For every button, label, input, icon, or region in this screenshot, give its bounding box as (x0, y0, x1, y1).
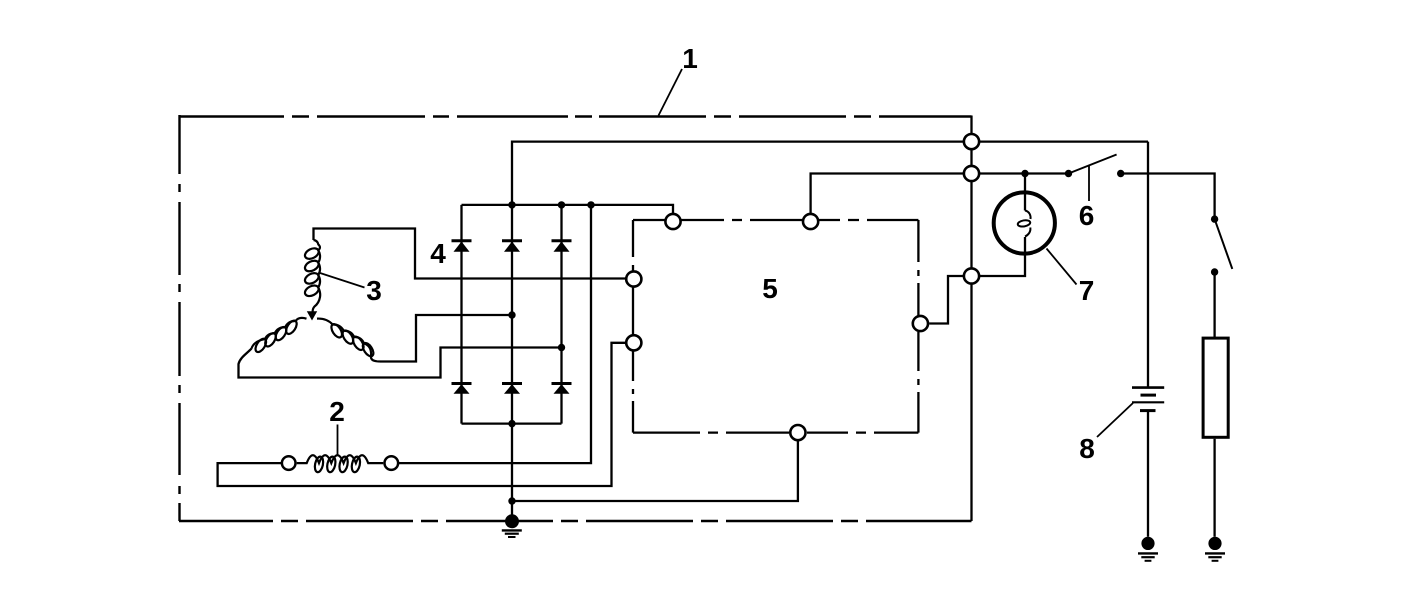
label 1 leader (659, 69, 683, 116)
regulator terminal circle bottom (790, 425, 805, 440)
field winding 2: coil humps (297, 455, 384, 463)
wire: D+ line from regulator to switch 6 (left part) (811, 174, 1069, 222)
diode D5 (502, 384, 522, 394)
ground symbol resistor (1205, 537, 1225, 561)
diode D1 (452, 241, 472, 252)
wire: D+ line right of switch 6 down to ignition switch (1121, 174, 1215, 220)
junction on top bus at column 2 (508, 201, 515, 208)
lamp filament loop (1017, 219, 1030, 227)
diode D2 (502, 241, 522, 252)
junction phase C (558, 344, 565, 351)
ignition switch bottom contact dot (1211, 268, 1218, 275)
alternator case box 1 bottom border (dash-dot) (179, 520, 972, 522)
alternator case box 1 top border (dash-dot) (179, 115, 972, 117)
lamp filament bulge (1025, 211, 1031, 220)
stator winding 3: right coil spine (317, 319, 380, 362)
junction on bottom bus at column 2 (508, 420, 515, 427)
svg-text:1: 1 (682, 43, 698, 74)
lamp filament lower bulge (1025, 228, 1030, 237)
switch 6 left contact dot (1065, 170, 1072, 177)
wire: B+ output line from rectifier riser to battery drop (top line) (512, 142, 1148, 205)
alternator case box 1 left border (dash-dot) (178, 115, 180, 521)
regulator terminal circle top-middle (803, 214, 818, 229)
wire: regulator right terminal to case terminal T3 / lamp return (929, 237, 1025, 324)
label 8 leader (1097, 403, 1133, 437)
wire: field supply line from top bus down to field coil (391, 205, 591, 463)
field coil loops (314, 456, 362, 473)
battery 8 plate short bottom (1140, 409, 1156, 412)
rectifier column 2 (continues to ground) (511, 205, 513, 521)
wire: ignition switch to load resistor (1213, 272, 1215, 338)
junction on top bus at column 3 (558, 201, 565, 208)
stator top coil loops (303, 246, 320, 298)
svg-text:6: 6 (1079, 200, 1095, 231)
wire: battery feed drop (1147, 142, 1149, 387)
label 6 leader (1088, 166, 1090, 202)
battery 8 plate long lower (1132, 401, 1164, 403)
svg-text:7: 7 (1079, 275, 1095, 306)
field terminal circle left (282, 456, 296, 470)
diode D6 (552, 384, 572, 394)
rectifier top bus (462, 205, 674, 222)
stator right coil loops (329, 322, 375, 358)
label 2 leader (337, 425, 339, 456)
regulator terminal circle right (913, 316, 928, 331)
field winding 2: left lead to regulator (218, 343, 634, 486)
stator winding 3: left coil spine (252, 318, 307, 349)
wire: regulator bottom terminal to ground column (512, 433, 798, 501)
load resistor body (1203, 338, 1228, 437)
svg-text:3: 3 (366, 275, 382, 306)
regulator terminal circle top-left (665, 214, 680, 229)
svg-text:5: 5 (762, 273, 778, 304)
regulator terminal circle left-lower (field output) (626, 335, 641, 350)
svg-text:4: 4 (430, 238, 446, 269)
stator star point junction (307, 311, 317, 320)
lamp top lead (1024, 174, 1026, 211)
svg-text:2: 2 (329, 396, 345, 427)
resistor bottom lead (1213, 439, 1215, 537)
wire: stator phase A to regulator (314, 229, 634, 279)
rectifier bottom bus (462, 422, 562, 424)
switch 6 right contact dot (1117, 170, 1124, 177)
case terminal T2 (D+) (964, 166, 979, 181)
ignition switch blade (1215, 219, 1233, 269)
wire: stator phase C to rectifier column 3 (239, 348, 562, 378)
junction phase B (508, 311, 515, 318)
stator left coil loops (253, 319, 298, 354)
ground symbol inside alternator (rectifier negative) (502, 514, 522, 537)
regulator box 5 right border (dash-dot) (917, 220, 919, 433)
battery bottom lead (1147, 412, 1149, 537)
warning lamp 7 bulb circle (994, 192, 1055, 253)
diode D4 (452, 384, 472, 394)
regulator terminal circle left-upper (phase A input) (626, 271, 641, 286)
rectifier column 1 (460, 205, 462, 424)
regulator box 5 bottom border (dash-dot) (633, 431, 918, 433)
junction at ground column y=501 (508, 497, 515, 504)
regulator box 5 left border (dash-dot) (632, 220, 634, 433)
field terminal circle right (385, 456, 399, 470)
switch 6 blade (1069, 155, 1117, 174)
diode D3 (552, 241, 572, 252)
case terminal T3 (lamp return) (964, 268, 979, 283)
battery 8 plate short upper (1141, 394, 1157, 397)
junction on top bus at field line (587, 201, 594, 208)
label 3 leader (319, 273, 365, 288)
ground symbol battery (1138, 537, 1158, 561)
case terminal T1 (B+) (964, 134, 979, 149)
label 7 leader (1047, 249, 1077, 285)
ignition switch top contact dot (1211, 215, 1218, 222)
battery 8 plate long top (1132, 386, 1164, 389)
regulator box 5 top border (dash-dot) (633, 219, 918, 221)
rectifier column 3 (560, 205, 562, 424)
junction: lamp top on D+ line (1021, 170, 1028, 177)
stator winding 3: top coil spine (313, 240, 321, 312)
wire: stator phase B to rectifier column 2 (380, 315, 512, 362)
svg-text:8: 8 (1079, 433, 1095, 464)
alternator case box 1 right border (solid, carries terminals) (970, 116, 972, 522)
